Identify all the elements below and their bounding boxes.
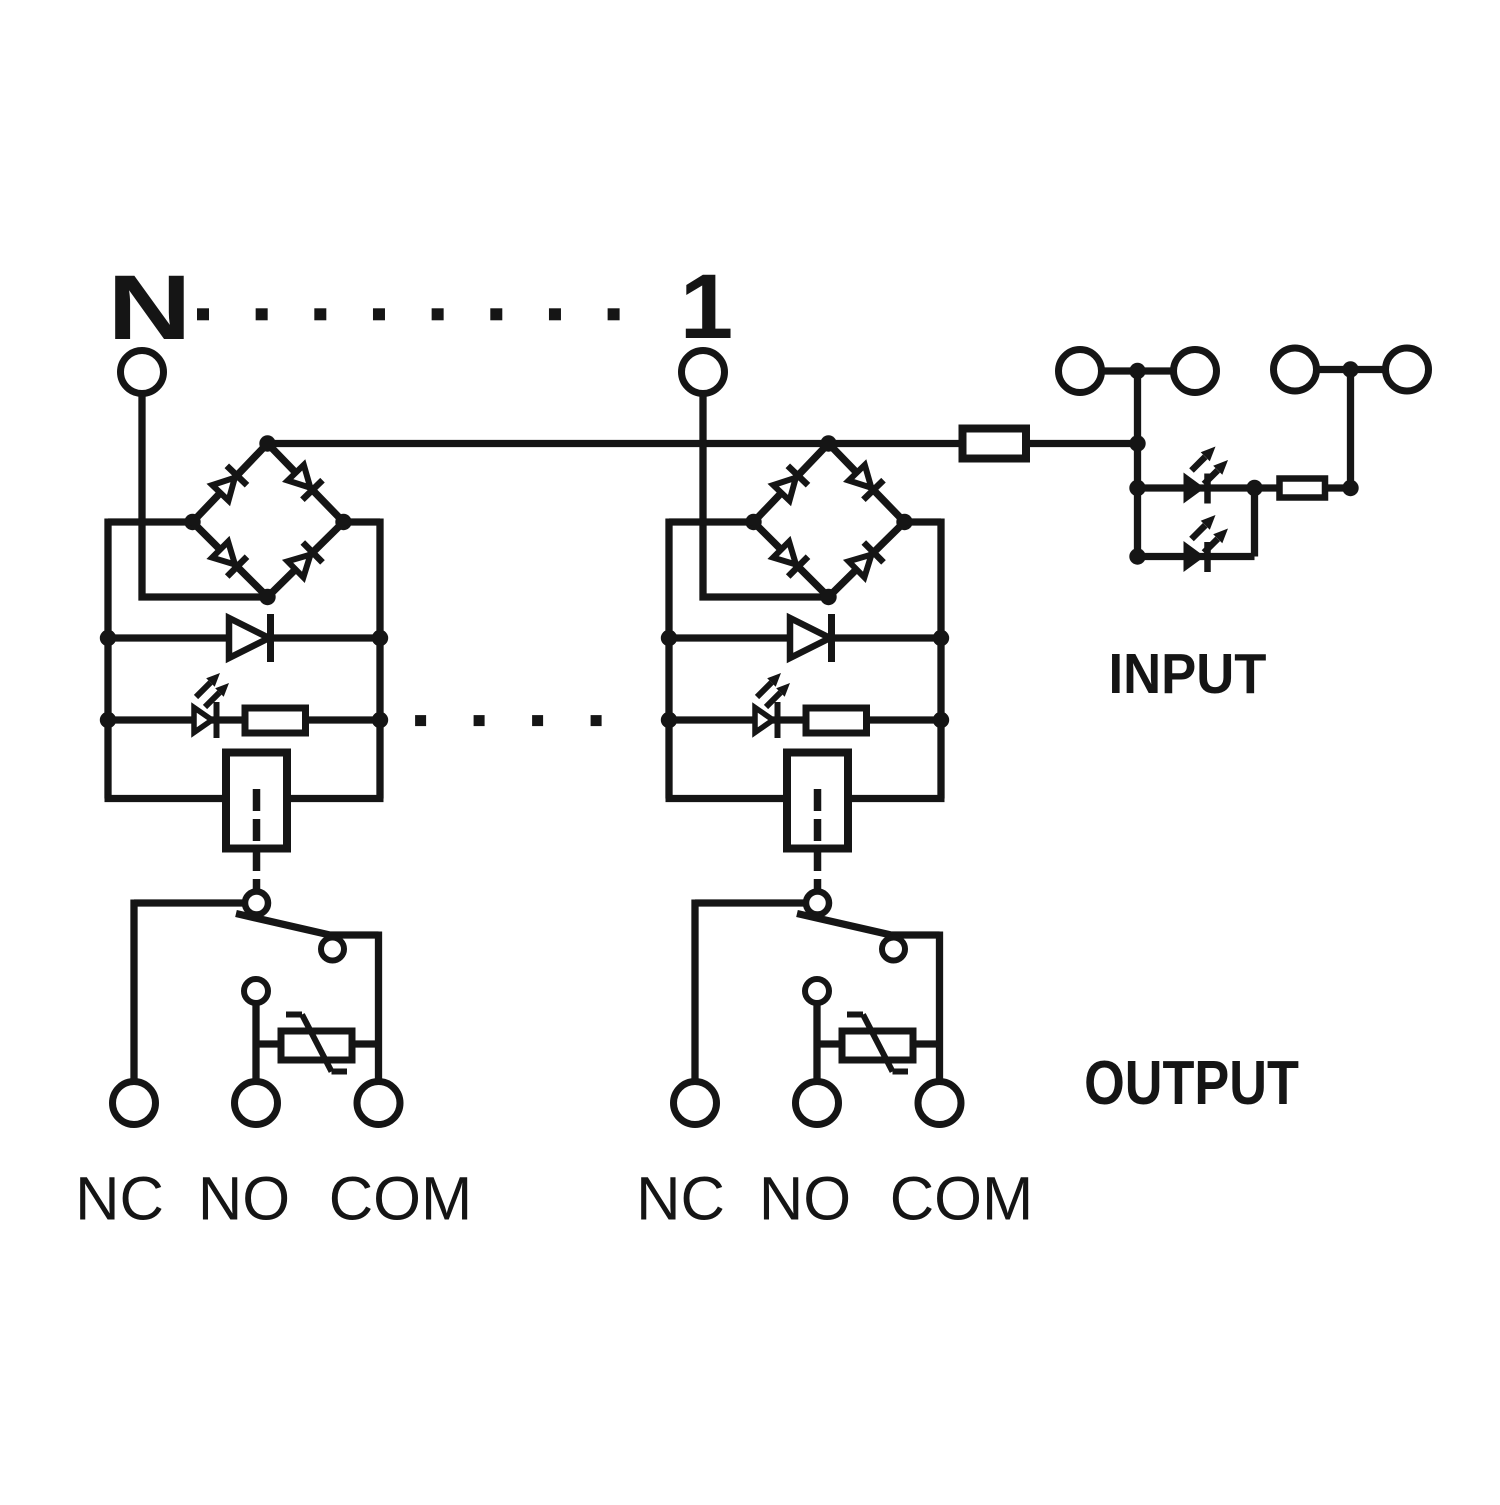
node: BRN - corner (bottom) [259, 589, 275, 605]
dotted continuation row (middle) [415, 715, 601, 726]
wire: riser to B link [1347, 370, 1354, 489]
node: LED rail junction left [661, 712, 677, 728]
node: BR1 AC corner (right) [896, 514, 912, 530]
svg-text:NO: NO [198, 1165, 290, 1234]
bridge BR1 diode lower-left [773, 542, 808, 577]
wire: varistor rail left [817, 1040, 842, 1047]
node: BRN AC corner (left) [184, 514, 200, 530]
relay K1 contact pivot [806, 892, 829, 915]
wire: link B1-B2 [1317, 366, 1386, 373]
relay K1 coil [787, 753, 848, 849]
resistor R1 (LED series) [806, 708, 867, 733]
mechanical link K1 (dashed) [814, 789, 822, 891]
diode DN (flyback) [229, 614, 271, 662]
svg-text:N: N [107, 257, 191, 359]
label OUTPUT [1084, 1049, 1299, 1118]
wire: COM drop [375, 932, 382, 1082]
LED1 (channel status) [755, 673, 790, 738]
label N (channel N) [107, 257, 191, 359]
relay K1 NO contact post [805, 979, 829, 1003]
node: rail junction right [372, 630, 388, 646]
wire: LED1 branch [1138, 484, 1255, 491]
svg-text:NC: NC [636, 1165, 725, 1234]
node: A link [1129, 363, 1145, 379]
terminal NC (channel 1) [674, 1082, 717, 1125]
node: BRN + corner (top) [259, 435, 275, 451]
node: LED branches join [1246, 480, 1262, 496]
terminal COM (channel 1) [918, 1082, 961, 1125]
wire: R2 to B riser [1325, 484, 1351, 491]
wire: link A1-A2 [1102, 367, 1174, 374]
wire: to R2 [1255, 484, 1280, 491]
LEDN (channel status) [194, 673, 229, 738]
wire: pivot to NC branch [134, 899, 245, 906]
terminal input A1 [1059, 350, 1102, 393]
wire: NO post drop [252, 1003, 259, 1081]
relay KN NO contact post [244, 979, 268, 1003]
node: B link [1342, 361, 1358, 377]
wire: varistor rail left [256, 1040, 281, 1047]
terminal N (trigger input) [121, 351, 164, 394]
relay K1 NO fixed contact [882, 938, 905, 961]
node: rail junction left [661, 630, 677, 646]
wire: channel 1 trigger terminal drop [703, 394, 829, 598]
varistor RV1 [842, 1015, 913, 1072]
relay KN contact pivot [245, 892, 268, 915]
dotted continuation row (top) [197, 308, 620, 320]
wire: LED branch riser [1251, 488, 1258, 557]
LED2 (input indicator) [1185, 515, 1229, 572]
node: LED rail junction right [933, 712, 949, 728]
resistor R-in (input series) [963, 429, 1027, 459]
terminal NC (channel N) [113, 1082, 156, 1125]
relay K1 movable blade [797, 914, 940, 936]
terminal 1 (trigger input) [682, 351, 725, 394]
relay KN coil [226, 753, 287, 849]
wire: channel N LED rail [108, 716, 380, 723]
bridge BR1 diode lower-right [849, 543, 884, 578]
node: LED branch top [1129, 480, 1145, 496]
wire: LED2 branch [1138, 553, 1255, 560]
terminal input B1 [1274, 348, 1317, 391]
label INPUT [1109, 641, 1267, 705]
wire: NC branch drop [691, 900, 698, 1082]
bridge BRN diode upper-right [288, 465, 323, 500]
wire: COM drop [936, 932, 943, 1082]
wire: channel 1 flyback diode rail [669, 634, 941, 641]
relay KN NO fixed contact [321, 938, 344, 961]
varistor RVN [281, 1015, 352, 1072]
svg-text:INPUT: INPUT [1109, 641, 1267, 705]
svg-text:COM: COM [329, 1165, 472, 1234]
bridge BRN diode lower-left [212, 542, 247, 577]
terminal NO (channel N) [235, 1082, 278, 1125]
wire: varistor rail right [913, 1040, 940, 1047]
wire: NC branch drop [130, 900, 137, 1082]
bridge BRN diode lower-right [288, 543, 323, 578]
wire: channel N DC bus frame [105, 519, 384, 799]
node: BR1 AC corner (left) [745, 514, 761, 530]
wire: channel 1 DC bus frame [666, 519, 945, 799]
wire: channel N flyback diode rail [108, 634, 380, 641]
svg-text:NO: NO [759, 1165, 851, 1234]
svg-text:1: 1 [680, 255, 733, 357]
node: LED rail junction left [100, 712, 116, 728]
terminal NO (channel 1) [796, 1082, 839, 1125]
wire: varistor rail right [352, 1040, 379, 1047]
node: LED branch bottom [1129, 548, 1145, 564]
LED1 (input indicator) [1185, 447, 1229, 504]
mechanical link KN (dashed) [253, 789, 261, 891]
node: rail junction right [933, 630, 949, 646]
bridge rectifier BRN edges [193, 444, 344, 598]
wire: channel N trigger terminal drop [142, 394, 268, 598]
node: bus tap [1129, 435, 1145, 451]
wire: bus from R-in to input node [1026, 440, 1138, 447]
wire: common AC bus to input network [268, 440, 964, 447]
node: BR1 - corner (bottom) [820, 589, 836, 605]
node: rail junction left [100, 630, 116, 646]
terminal input A2 [1174, 350, 1217, 393]
svg-text:NC: NC [75, 1165, 164, 1234]
node: LED rail junction right [372, 712, 388, 728]
bridge BR1 diode upper-right [849, 465, 884, 500]
svg-text:OUTPUT: OUTPUT [1084, 1049, 1299, 1118]
node: R2 output [1342, 480, 1358, 496]
relay KN movable blade [236, 914, 379, 936]
node: BRN AC corner (right) [335, 514, 351, 530]
terminal input B2 [1386, 348, 1429, 391]
wire: channel 1 LED rail [669, 716, 941, 723]
node: BR1 + corner (top) [820, 435, 836, 451]
diode D1 (flyback) [790, 614, 832, 662]
terminal COM (channel N) [357, 1082, 400, 1125]
svg-text:COM: COM [890, 1165, 1033, 1234]
wire: NO post drop [813, 1003, 820, 1081]
wire: input vertical feed [1134, 371, 1141, 557]
bridge BR1 diode upper-left [773, 466, 808, 501]
label 1 (channel 1) [680, 255, 733, 357]
resistor R2 (input) [1280, 479, 1326, 498]
bridge rectifier BR1 edges [754, 444, 905, 598]
resistor RN (LED series) [245, 708, 306, 733]
bridge BRN diode upper-left [212, 466, 247, 501]
wire: pivot to NC branch [695, 899, 806, 906]
